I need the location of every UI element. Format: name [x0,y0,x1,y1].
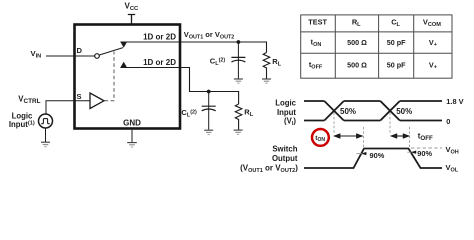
ground under RL1 [262,79,271,83]
svg-text:90%: 90% [370,151,385,160]
dashed measurement line from rise corner [363,127,365,148]
test conditions table [301,15,452,78]
svg-text:VIN: VIN [31,49,42,60]
svg-text:1D or 2D: 1D or 2D [143,32,176,41]
Vcc supply symbol [128,15,135,25]
svg-text:(VOUT1 or VOUT2): (VOUT1 or VOUT2) [240,163,298,174]
svg-text:TEST: TEST [308,18,327,27]
switch output waveform [304,149,442,169]
svg-text:RL: RL [272,57,281,68]
svg-text:90%: 90% [417,149,432,158]
svg-text:Output: Output [272,154,298,163]
red highlight circle around tON [312,129,329,146]
dashed control line from buffer to switch [105,52,115,101]
svg-text:CL(2): CL(2) [210,56,226,67]
svg-text:CL(2): CL(2) [181,108,197,119]
svg-text:VCC: VCC [125,2,140,13]
device under test box U1 [75,25,181,129]
dashed measurement line from fall corner [409,127,411,147]
crossing X1 [324,101,344,121]
switch pole circle [95,54,100,59]
wire Vin to D pin [46,55,95,57]
ground under CL1 [234,79,243,83]
capacitor CL1 [237,42,239,79]
svg-text:50 pF: 50 pF [387,38,406,47]
resistor RL2 [235,104,242,130]
svg-text:V+: V+ [429,60,437,70]
svg-text:50%: 50% [396,107,412,116]
tOFF measurement arrow [390,133,410,138]
ground under RL2 [234,130,243,134]
logic input source circle [39,114,53,128]
svg-text:RL: RL [352,18,361,28]
svg-text:S: S [77,92,82,101]
logic input waveform [304,101,442,121]
svg-text:GND: GND [123,118,141,127]
svg-text:VOUT1 or VOUT2: VOUT1 or VOUT2 [184,30,234,41]
wire source to ground [45,128,47,142]
buffer S driver [90,93,104,109]
svg-text:RL: RL [244,108,253,119]
svg-text:tON: tON [311,38,322,48]
output wire 2 (bottom) [120,68,238,105]
capacitor CL2 [208,92,210,130]
resistor RL1 [263,53,270,79]
dashed measurement line from X2 [389,113,391,135]
tON measurement arrow [333,133,364,138]
dashed measurement line from X1 [333,113,335,135]
arrowhead throw 1D [120,42,127,48]
svg-text:V+: V+ [429,38,437,48]
ground under CL2 [204,130,213,134]
GND pin wire [131,130,133,143]
svg-text:1.8 V: 1.8 V [446,97,463,106]
svg-text:1D or 2D: 1D or 2D [143,58,176,67]
svg-text:500 Ω: 500 Ω [347,38,367,47]
svg-text:tON: tON [315,135,325,143]
svg-text:CL: CL [391,18,400,28]
svg-text:VCOM: VCOM [423,18,441,28]
node junction dot 2 [207,90,211,94]
svg-text:50 pF: 50 pF [387,60,406,69]
90% tick on fall [407,151,416,153]
ground (GND pin) [127,143,137,147]
svg-text:VOL: VOL [446,163,459,174]
pulse glyph [41,119,50,124]
svg-text:Logic: Logic [275,98,296,107]
svg-text:Input(1): Input(1) [9,120,35,129]
svg-text:tOFF: tOFF [418,131,433,142]
svg-text:tOFF: tOFF [309,60,323,70]
switch arm [99,48,123,55]
svg-text:(VI): (VI) [284,116,296,127]
svg-text:500 Ω: 500 Ω [347,60,367,69]
svg-text:Switch: Switch [272,145,297,154]
svg-text:0: 0 [446,117,450,126]
output wire 1 (top) [120,42,266,53]
svg-text:VOH: VOH [446,145,459,156]
svg-text:VCTRL: VCTRL [18,95,40,106]
svg-text:50%: 50% [340,107,356,116]
90% tick on rise [357,153,367,155]
crossing X2 [380,101,400,121]
node junction dot 1 [237,40,241,44]
ground (logic source) [41,142,50,147]
VOH dashed level line [411,147,442,149]
arrowhead throw 2D [120,62,127,68]
svg-text:D: D [77,46,83,55]
wire Vctrl to S [46,101,90,114]
